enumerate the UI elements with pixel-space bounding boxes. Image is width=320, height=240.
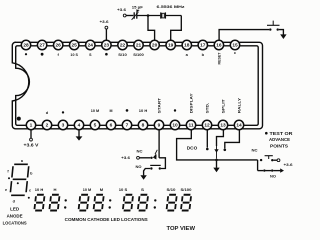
svg-text:f: f	[7, 169, 9, 173]
wire: reset pushbutton to ground arrow	[279, 30, 284, 35]
ground arrow (reset button)	[280, 34, 286, 39]
IC pin 4	[74, 120, 83, 129]
NC contact dot (test point)	[150, 157, 152, 159]
svg-text:TOP VIEW: TOP VIEW	[167, 226, 196, 232]
svg-text:10 H: 10 H	[139, 109, 148, 113]
decimal dot mark	[17, 182, 19, 184]
svg-text:10 M: 10 M	[91, 109, 100, 113]
wire: pin 16 up and right to reset pushbutton	[219, 30, 269, 41]
IC pin 27	[37, 40, 46, 49]
svg-text:22: 22	[120, 43, 126, 49]
display digit 4	[93, 195, 103, 211]
svg-text:a: a	[21, 159, 24, 163]
IC pin 13	[218, 120, 227, 129]
svg-text:9: 9	[158, 123, 161, 129]
IC pin 19	[166, 40, 175, 49]
svg-text:+3.6: +3.6	[121, 155, 131, 160]
svg-text:13: 13	[220, 123, 226, 129]
svg-text:18: 18	[184, 43, 190, 49]
svg-text:27: 27	[39, 43, 45, 49]
IC pin 22	[118, 40, 127, 49]
svg-text:10: 10	[172, 123, 178, 129]
ground arrow (selector)	[213, 168, 219, 173]
svg-text:S/10: S/10	[167, 188, 176, 192]
svg-text:f: f	[58, 52, 60, 57]
svg-text:b: b	[202, 52, 205, 57]
svg-text:28: 28	[23, 43, 29, 49]
start/stop switch S1 wiper arrow	[155, 150, 157, 154]
IC pin 5	[90, 120, 99, 129]
svg-text:26: 26	[56, 43, 62, 49]
display digit 6	[138, 195, 148, 211]
svg-text:STD.: STD.	[206, 103, 210, 114]
wire: S1 NO contact to ground	[144, 169, 151, 176]
svg-text:S: S	[141, 188, 145, 192]
IC pin 15	[230, 40, 239, 49]
svg-text:11: 11	[188, 123, 193, 129]
pin 10 label (dot)	[174, 109, 176, 111]
wire: S2 NC to +3.6 terminal	[274, 159, 278, 161]
IC pin 18	[182, 40, 191, 49]
svg-text:TEST OR: TEST OR	[270, 131, 294, 136]
pin 3 label (dot)	[62, 111, 64, 113]
IC pin 10	[170, 120, 179, 129]
svg-text:6: 6	[110, 123, 113, 129]
svg-text:15 pF: 15 pF	[132, 5, 144, 10]
wire: S2 NO arrow right	[266, 170, 272, 172]
IC pin 7	[122, 120, 131, 129]
svg-text:4: 4	[78, 123, 81, 129]
svg-text:ANODE: ANODE	[7, 213, 23, 218]
IC pin 17	[198, 40, 207, 49]
IC pin 12	[202, 120, 211, 129]
IC pin 3	[58, 120, 67, 129]
display digit 2	[49, 195, 59, 211]
wire: pin 9 down to start/stop switch	[158, 130, 160, 158]
display colon 1	[65, 199, 67, 201]
svg-text:10 S: 10 S	[119, 188, 128, 192]
svg-text:8: 8	[142, 123, 145, 129]
wire: cap to crystal node (with junction to pin 20 leg)	[137, 15, 160, 17]
svg-text:e: e	[5, 188, 7, 192]
svg-text:10 M: 10 M	[83, 188, 92, 192]
svg-text:20: 20	[152, 43, 158, 49]
display colon 3	[154, 199, 156, 201]
svg-text:10 H: 10 H	[35, 188, 44, 192]
pin 23 label (dot)	[105, 53, 108, 56]
display digit 5	[123, 195, 133, 211]
svg-text:RESET: RESET	[218, 52, 222, 65]
svg-text:START: START	[158, 97, 162, 113]
wire: +3.6 terminal to trimmer cap	[126, 15, 133, 17]
svg-text:NO: NO	[136, 165, 142, 169]
svg-text:NC: NC	[137, 150, 143, 154]
wire: pin 11 loop down-left to selector bus (DCO)	[177, 130, 258, 160]
pin 7 label (dot)	[126, 109, 129, 112]
IC U1 package outline (DIP-28, double line with index notch)	[12, 42, 262, 129]
ground arrow (S1)	[140, 175, 146, 180]
svg-text:S/10: S/10	[118, 53, 127, 57]
svg-text:NC: NC	[252, 149, 258, 153]
svg-text:12: 12	[204, 123, 210, 129]
IC pin 2	[42, 120, 51, 129]
junction node at pin 20 leg	[147, 14, 150, 17]
+3.6 terminal (S2)	[277, 159, 280, 162]
selector contact dot (RALLY)	[224, 149, 227, 152]
svg-text:10 S: 10 S	[70, 53, 78, 57]
svg-text:24: 24	[88, 43, 94, 49]
pin 28 label (dot)	[25, 53, 27, 55]
svg-text:+3.6: +3.6	[284, 162, 294, 167]
NO contact dot right (S1)	[159, 167, 161, 169]
svg-text:COMMON CATHODE LED LOCATIONS: COMMON CATHODE LED LOCATIONS	[65, 217, 148, 222]
segment label g (dot)	[8, 177, 10, 179]
svg-text:16: 16	[216, 43, 222, 49]
reset pushbutton plunger	[267, 24, 280, 26]
display digit 3	[78, 195, 88, 211]
svg-text:DISPLAY: DISPLAY	[190, 93, 194, 114]
svg-text:ADVANCE: ADVANCE	[269, 137, 290, 142]
wire: pin 9 pole loop to NO contact	[159, 158, 165, 169]
svg-text:21: 21	[136, 43, 142, 49]
wire: bus junction down to S2 NO row	[257, 160, 259, 171]
svg-text:a: a	[186, 52, 189, 57]
svg-text:POINTS: POINTS	[270, 144, 288, 149]
svg-text:1: 1	[30, 123, 33, 129]
IC pin 14	[234, 120, 243, 129]
IC pin 11	[186, 120, 195, 129]
ground arrow (pin 4)	[76, 136, 83, 140]
IC pin 21	[134, 40, 143, 49]
decimal dot mark right	[28, 197, 30, 199]
wire: left oscillator leg to pin 20	[148, 16, 155, 41]
pin 27 label (dot)	[41, 53, 44, 56]
IC pin 24	[86, 40, 95, 49]
svg-text:19: 19	[168, 43, 174, 49]
S2 plunger	[265, 155, 273, 157]
display colon 2	[109, 199, 111, 201]
svg-text:S/100: S/100	[181, 188, 192, 192]
S2 NO row wire	[258, 170, 264, 172]
svg-text:LED: LED	[10, 206, 19, 211]
IC pin 6	[106, 120, 115, 129]
svg-text:15: 15	[232, 43, 238, 49]
S1 plunger bar	[150, 164, 161, 166]
wire: pin 1 to +3.6 V terminal	[30, 130, 32, 139]
svg-text:c: c	[234, 50, 237, 55]
IC pin 28	[21, 40, 30, 49]
selector wiper arrow	[216, 146, 218, 159]
legend: TEST OR ADVANCE POINTS	[265, 132, 268, 135]
wire: crystal to right leg	[165, 15, 181, 17]
wire: pin 4 to ground	[78, 130, 80, 137]
svg-text:NO: NO	[270, 174, 276, 178]
svg-text:+3.6: +3.6	[100, 19, 110, 24]
svg-text:LOCATIONS: LOCATIONS	[3, 220, 27, 225]
display digit 7	[166, 195, 176, 211]
wire: +3.6 terminal to pin 23	[105, 29, 107, 40]
wire: +3.6 terminal to NC contact	[139, 157, 150, 159]
IC pin 25	[70, 40, 79, 49]
IC pin 8	[138, 120, 147, 129]
wire: right oscillator leg to pin 19	[171, 16, 182, 41]
NO contact dot left (S1)	[150, 167, 152, 169]
svg-text:25: 25	[72, 43, 78, 49]
selector contact dot (STD.)	[206, 148, 209, 151]
svg-text:d: d	[46, 110, 49, 115]
display digit 1	[34, 195, 44, 211]
svg-text:c: c	[29, 188, 31, 192]
IC pin 26	[54, 40, 63, 49]
reset pushbutton S3 contacts	[269, 28, 271, 30]
svg-text:5: 5	[94, 123, 97, 129]
svg-text:+3.6 V: +3.6 V	[24, 142, 39, 147]
wire: pin 12 to selector contact	[206, 130, 208, 148]
svg-text:SPLIT: SPLIT	[222, 98, 226, 113]
wire: junction down to ground	[216, 160, 218, 168]
pin 1 index dot	[17, 117, 21, 121]
svg-text:3: 3	[62, 123, 65, 129]
svg-text:H: H	[54, 188, 57, 192]
svg-text:RALLY: RALLY	[238, 97, 242, 113]
wire: pin 14 to selector contact	[225, 130, 240, 149]
S2 NO contact dots	[263, 169, 265, 171]
IC pin 23	[102, 40, 111, 49]
svg-text:7: 7	[126, 123, 129, 129]
IC pin 9	[154, 120, 163, 129]
+3.6 V supply terminal (pin 1)	[30, 138, 33, 141]
IC pin 1	[26, 120, 35, 129]
wire: pin 13 to selector wiper	[217, 130, 224, 146]
svg-text:d: d	[13, 200, 16, 204]
IC pin 20	[150, 40, 159, 49]
svg-text:+3.6: +3.6	[117, 7, 127, 12]
svg-text:2: 2	[46, 123, 49, 129]
svg-text:14: 14	[236, 123, 242, 129]
svg-text:17: 17	[200, 43, 206, 49]
junction: selector wiper to bus/ground	[215, 159, 218, 162]
svg-text:S: S	[89, 53, 92, 57]
svg-text:b: b	[30, 171, 33, 175]
svg-text:DCO: DCO	[187, 146, 198, 151]
display digit 8	[181, 195, 191, 211]
svg-text:6.5536 MHz: 6.5536 MHz	[157, 4, 185, 9]
LED anode locations 7-segment figure	[10, 164, 29, 195]
svg-text:S/100: S/100	[133, 53, 144, 57]
S2 NC contact dots	[260, 159, 262, 161]
svg-text:M: M	[100, 188, 103, 192]
svg-text:M: M	[110, 109, 113, 113]
svg-text:23: 23	[104, 43, 110, 49]
IC pin 16	[214, 40, 223, 49]
